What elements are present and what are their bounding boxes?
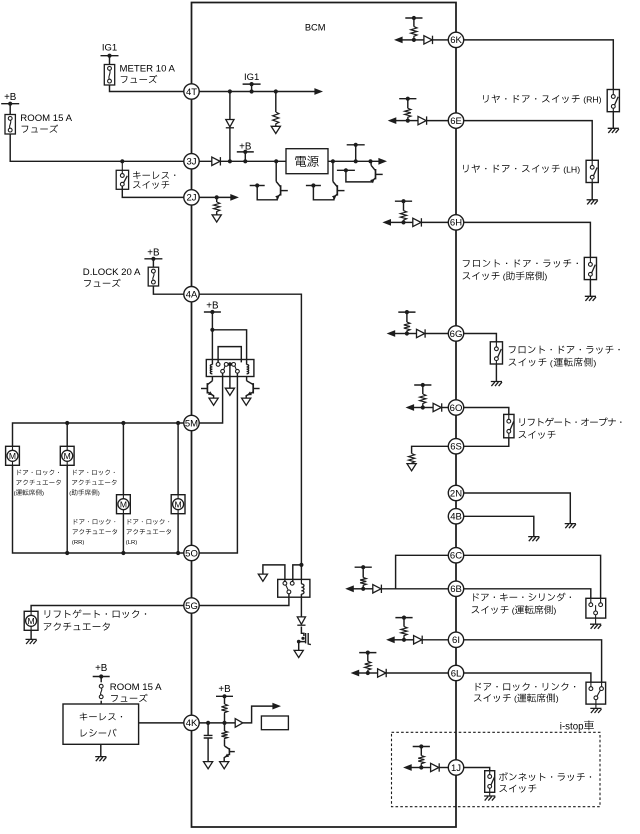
ground liftgate actuator [30, 630, 32, 639]
svg-text:6I: 6I [452, 635, 460, 646]
label rear door switch RH [483, 95, 488, 103]
transistor liftgate driver (FET) [301, 627, 304, 637]
switch liftgate opener [504, 414, 514, 437]
junction 6H [401, 220, 405, 224]
wire 6O output arrow [414, 407, 423, 409]
wire 6K input [414, 39, 424, 41]
transistor Q1 [250, 185, 265, 187]
wire 3J rail [199, 160, 286, 162]
junction diode branch [228, 89, 232, 93]
svg-text:4B: 4B [450, 512, 462, 523]
wire 5G to liftgate actuator [31, 606, 184, 612]
wire coil to driver [300, 594, 302, 617]
resistor 6O pull-up [422, 385, 424, 394]
node 6G pull-up bar [398, 311, 415, 313]
ground front door latch switch (driver) [495, 364, 497, 381]
wire 4B to ground [464, 516, 534, 536]
svg-text:i-stop: i-stop [560, 721, 584, 732]
node 6E pull-up bar [399, 98, 416, 100]
label front door latch switch (passenger) [463, 260, 470, 267]
wire 6I to door lock link switch [464, 640, 602, 686]
junction IG1 diode join [228, 159, 232, 163]
resistor 6I pull-up [403, 618, 405, 627]
wire 4A feed to liftgate relay [199, 294, 301, 579]
svg-text:6K: 6K [450, 35, 462, 46]
junction output stub [354, 159, 358, 163]
svg-text:6H: 6H [450, 218, 462, 229]
wire 6O to liftgate opener switch [464, 408, 509, 415]
wire keyless switch to connector 2J [122, 186, 184, 197]
node 6I pull-up bar [395, 617, 412, 619]
label actuator RR [74, 519, 78, 524]
wire actuator bus bottom (5O) [13, 465, 184, 553]
node 6O pull-up bar [414, 384, 431, 386]
connector 4A [184, 287, 199, 302]
power supply block 電源 [286, 149, 328, 174]
wire 6C cross-link to 6B line [396, 555, 449, 589]
wire 6G to front door latch switch (driver) [464, 334, 497, 342]
diode 1J [431, 763, 439, 771]
wire +B to D.LOCK fuse [152, 259, 154, 267]
label key cylinder switch [473, 593, 479, 601]
switch bonnet latch [485, 771, 495, 793]
svg-text:6O: 6O [450, 403, 463, 414]
connector 4K [184, 715, 199, 730]
svg-text:M: M [9, 451, 16, 461]
svg-text:): ) [98, 491, 100, 497]
resistor 6B pull-up [362, 567, 364, 577]
relay liftgate contacts [283, 581, 287, 585]
relay coil left [210, 365, 212, 374]
diode IG1-to-power rail [229, 92, 231, 120]
resistor 6E pull-up [407, 99, 409, 109]
motor door-lock actuator (RR) [117, 495, 131, 514]
junction keyless switch tap [120, 159, 124, 163]
wire actuator 2 drop [66, 423, 68, 446]
wire 6S internal [412, 446, 449, 453]
wire 6B output arrow [353, 588, 363, 590]
wire IG1 to METER fuse [109, 56, 111, 65]
wire 6L output arrow [359, 672, 368, 674]
diode 6I [414, 636, 422, 644]
svg-text:): ) [593, 358, 596, 368]
svg-text:+B: +B [4, 92, 17, 103]
junction resistor branch [274, 89, 278, 93]
diode from 3J [212, 157, 220, 165]
svg-text:D.LOCK 20 A: D.LOCK 20 A [83, 267, 141, 278]
wire 6L to door lock link switch [464, 673, 591, 686]
svg-text:(: ( [500, 272, 505, 282]
wire power supply output [328, 160, 379, 162]
ground bonnet latch switch [489, 792, 491, 795]
wire 1J to bonnet latch switch [464, 768, 490, 771]
svg-text:IG1: IG1 [102, 42, 117, 53]
wire 6H input [404, 221, 413, 223]
wire D.LOCK fuse to connector 4A [153, 286, 183, 294]
keyless receiver box [63, 704, 139, 744]
svg-text:(RR): (RR) [72, 540, 84, 546]
svg-text:+B: +B [218, 684, 231, 695]
connector 6K [448, 32, 463, 47]
ground 4B [528, 537, 539, 542]
junction 6I [402, 638, 406, 642]
wire 2J internal [199, 196, 230, 198]
label bonnet latch switch [499, 772, 508, 781]
connector 6L [448, 665, 463, 680]
junction 6K [412, 38, 416, 42]
diode 6L [378, 669, 386, 677]
resistor 6K pull-up [413, 18, 415, 27]
ground front door latch switch (passenger) [589, 280, 591, 297]
resistor 2J pull-down [216, 197, 218, 202]
svg-text:(LH): (LH) [561, 164, 580, 174]
i-stop option dashed box [392, 732, 601, 806]
svg-text:4K: 4K [186, 718, 198, 729]
junction 6B [361, 587, 365, 591]
junction 6L [366, 671, 370, 675]
capacitor 4K filter [207, 723, 209, 735]
connector 6S [448, 439, 463, 454]
svg-text:): ) [553, 605, 556, 615]
junction 6O [421, 405, 425, 409]
junction 6G [405, 331, 409, 335]
junction 6E [406, 119, 410, 123]
fuse D.LOCK 20 A [148, 267, 158, 286]
wire 6E input [408, 120, 418, 122]
wire 6C to key cylinder switch [464, 555, 601, 600]
svg-text:6S: 6S [450, 442, 462, 453]
connector 6I [448, 632, 463, 647]
label actuator LR [128, 519, 132, 524]
ground key cylinder switch [595, 615, 597, 624]
transistor 4K driver [224, 739, 226, 746]
wire 6E to rear door switch LH [464, 121, 593, 161]
svg-text:4A: 4A [186, 290, 198, 301]
label front door latch switch (driver) [509, 346, 516, 353]
svg-text:M: M [28, 616, 35, 626]
resistor 6L pull-up [367, 653, 369, 662]
logic block (receiver interface) [261, 716, 288, 730]
wire relay contact to 5O [199, 373, 237, 553]
svg-text:BCM: BCM [305, 23, 326, 33]
ground keyless receiver [100, 744, 102, 756]
svg-text:M: M [64, 451, 71, 461]
wire METER fuse to connector 4T [110, 85, 184, 92]
diode liftgate driver [297, 617, 305, 624]
connector 5M [184, 415, 199, 430]
connector 4T [184, 84, 199, 99]
switch door lock link (driver) [586, 682, 606, 704]
wire 6H output arrow [390, 221, 403, 223]
connector 4B [448, 509, 463, 524]
svg-text:1J: 1J [451, 763, 461, 774]
svg-text:): ) [556, 694, 559, 704]
wire 1J output arrow [411, 767, 421, 769]
wire 6G input [407, 333, 417, 335]
svg-text:(: ( [512, 694, 517, 704]
label actuator driver side [18, 470, 22, 475]
node 1J pull-up bar [413, 746, 430, 748]
svg-text:+B: +B [95, 663, 108, 674]
wire relay contact jumper [218, 347, 241, 363]
svg-text:IG1: IG1 [244, 72, 259, 83]
transistor relay driver right [246, 377, 248, 381]
connector 6C [448, 548, 463, 563]
svg-text:6L: 6L [451, 668, 462, 679]
resistor 4K pull-up [224, 696, 226, 704]
switch door key cylinder (driver) [586, 598, 606, 618]
wire relay contact link with stub [263, 565, 285, 581]
label door lock link switch [476, 683, 482, 691]
svg-text:M: M [120, 499, 127, 509]
svg-text:6C: 6C [450, 551, 462, 562]
connector 5O [184, 545, 199, 560]
svg-text:(: ( [548, 358, 553, 368]
fuse ROOM 15 A [5, 115, 15, 135]
wire ROOM fuse to connector 3J [10, 134, 184, 161]
switch front door latch (driver) [490, 342, 502, 364]
diode 6E [418, 116, 426, 124]
node 6B pull-up bar [355, 566, 372, 568]
junction capacitor branch [206, 721, 210, 725]
wire liftgate opener switch to 6S [464, 438, 509, 447]
node 6L pull-up bar [359, 652, 376, 654]
wire relay common sense [229, 364, 231, 388]
connector 3J [184, 154, 199, 169]
wire keyless receiver to 4K [139, 722, 184, 724]
label rear door switch LH [463, 165, 468, 173]
junction Q2 collector [331, 159, 335, 163]
resistor 6G pull-up [406, 312, 408, 322]
ground door lock link switch [595, 700, 597, 708]
ground 2N [565, 524, 576, 529]
svg-text:5G: 5G [185, 601, 198, 612]
svg-text:6G: 6G [450, 329, 463, 340]
svg-text:5M: 5M [185, 418, 198, 429]
resistor on IG1 rail [275, 92, 277, 113]
switch rear door (LH) [586, 160, 598, 182]
fuse ROOM 15 A (receiver) [100, 677, 102, 683]
junction Q1 collector [274, 159, 278, 163]
label liftgate opener switch [520, 418, 525, 426]
junction liftgate relay feed [299, 563, 303, 567]
ground rear door switch LH [591, 183, 593, 200]
wire 6I output arrow [394, 639, 404, 641]
node 6H pull-up bar [395, 200, 412, 202]
motor door-lock actuator (driver side) [6, 446, 20, 465]
svg-text:(LR): (LR) [126, 540, 137, 546]
wire buffer output [243, 706, 273, 723]
svg-text:2N: 2N [450, 488, 462, 499]
relay coil right [247, 365, 249, 374]
switch front door latch (passenger) [584, 257, 596, 279]
diode 6B [373, 585, 381, 593]
connector 6G [448, 326, 463, 341]
wire relay common to 5G [199, 594, 289, 606]
svg-text:METER 10 A: METER 10 A [120, 64, 176, 75]
svg-text:(RH): (RH) [581, 95, 602, 105]
wire actuator RR drop [122, 423, 124, 495]
motor door-lock actuator (passenger side) [60, 446, 74, 465]
resistor 4K lower [224, 723, 226, 731]
junction 1J [419, 765, 423, 769]
svg-text:(: ( [69, 491, 71, 497]
fuse METER 10 A [104, 65, 114, 86]
svg-text:6E: 6E [450, 116, 462, 127]
wire 6O input [423, 407, 433, 409]
switch keyless (key reminder) [116, 170, 128, 189]
motor door-lock actuator (LR) [171, 495, 185, 514]
relay liftgate coil [300, 579, 302, 584]
connector 2N [448, 485, 463, 500]
wire 6I input [404, 639, 414, 641]
BCM module box [192, 3, 457, 828]
relay liftgate box [278, 579, 310, 597]
resistor 6S [409, 454, 415, 465]
svg-text:ROOM 15 A: ROOM 15 A [110, 682, 162, 693]
transistor Q3 [337, 169, 355, 171]
motor liftgate lock actuator [24, 611, 38, 630]
connector 5G [184, 598, 199, 613]
wire 1J input [421, 767, 430, 769]
junction resistor branch [222, 721, 226, 725]
node output stub bar [355, 145, 357, 162]
svg-text:(: ( [14, 491, 16, 497]
relay door-lock (double coil) box [206, 360, 254, 377]
connector 6B [448, 581, 463, 596]
wire 6E output arrow [396, 120, 408, 122]
connector 6O [448, 400, 463, 415]
junction 2J resistor [215, 195, 219, 199]
svg-text:2J: 2J [186, 193, 196, 204]
connector 1J [448, 760, 463, 775]
diode 6K [424, 36, 432, 44]
wire 6K to rear door switch RH [464, 40, 614, 90]
wire 6G output arrow [395, 333, 407, 335]
wire 6H to front door latch switch (passenger) [464, 222, 591, 257]
svg-text:4T: 4T [186, 87, 197, 98]
ground rear door switch RH [612, 112, 614, 128]
wire 6K output arrow [402, 39, 414, 41]
resistor 6H pull-up [403, 201, 405, 210]
wire 2N to ground [464, 493, 571, 523]
wire relay contact to 5M [199, 373, 222, 423]
switch rear door (RH) [607, 90, 619, 112]
buffer amplifier 4K [235, 719, 243, 728]
connector 6H [448, 215, 463, 230]
node 6K pull-up bar [405, 17, 422, 19]
transistor relay driver left [211, 377, 213, 381]
diode 6O [433, 403, 441, 411]
svg-text:): ) [544, 272, 547, 282]
wire actuator bus top (5M) [13, 423, 184, 446]
wire actuator LR drop [177, 423, 179, 495]
wire +B to ROOM fuse [9, 104, 11, 115]
wire +B into relay coils [211, 312, 213, 365]
label actuator passenger side [73, 470, 77, 475]
transistor Q2 [306, 185, 321, 187]
svg-text:5O: 5O [185, 548, 198, 559]
wire 6B input [363, 588, 373, 590]
svg-text:): ) [42, 491, 44, 497]
svg-text:M: M [175, 499, 182, 509]
relay contacts [216, 363, 220, 367]
svg-text:ROOM 15 A: ROOM 15 A [20, 113, 72, 124]
connector 6E [448, 113, 463, 128]
label liftgate lock actuator [45, 610, 51, 618]
connector 2J [184, 190, 199, 205]
svg-text:6B: 6B [450, 584, 462, 595]
svg-text:3J: 3J [186, 157, 196, 168]
wire 6L input [368, 672, 378, 674]
wire IG1 rail from 4T [199, 91, 315, 93]
diode 6G [417, 329, 425, 337]
wire 6B to key cylinder switch [464, 589, 591, 600]
resistor 1J pull-up [420, 747, 422, 756]
junction Q3 collector [368, 159, 372, 163]
wire feed to relay contact [293, 565, 302, 581]
diode 6H [413, 218, 421, 226]
wire 4K internal rail [199, 722, 235, 724]
svg-text:(: ( [509, 605, 514, 615]
